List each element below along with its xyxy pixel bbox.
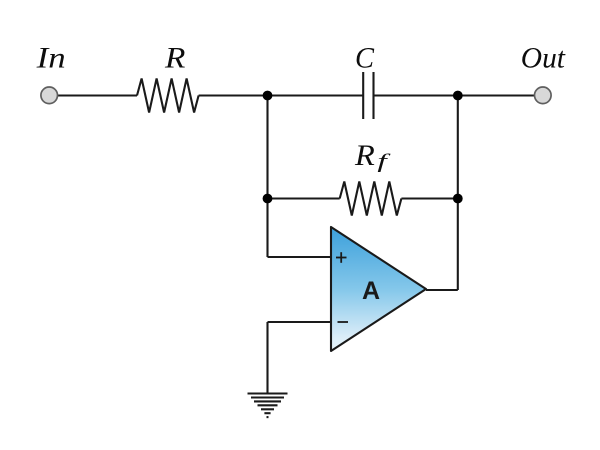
- wire left vertical node A down to op-amp + input: [266, 96, 268, 258]
- resistor R: [137, 79, 199, 113]
- wire node A to capacitor C: [268, 94, 364, 96]
- wire node B to Out terminal: [458, 94, 535, 96]
- wire node C to resistor Rf: [268, 197, 340, 199]
- node D (junction Rf right): [453, 194, 463, 204]
- wire right vertical node B to op-amp output: [457, 96, 459, 291]
- node C (junction Rf left): [263, 194, 273, 204]
- op-amp + pin label: [336, 252, 347, 263]
- capacitor C: [363, 72, 373, 119]
- resistor Rf: [340, 182, 402, 216]
- op-amp U1: [331, 227, 426, 351]
- Out terminal: [535, 87, 552, 104]
- wire op-amp output horizontal: [426, 289, 458, 291]
- wire resistor Rf to node D: [401, 197, 457, 199]
- wire resistor R to node A: [199, 94, 268, 96]
- svg-text:Rf: Rf: [354, 139, 391, 173]
- svg-text:A: A: [362, 277, 380, 305]
- wire In terminal to resistor R: [57, 94, 137, 96]
- svg-text:In: In: [36, 42, 66, 75]
- wire capacitor C to node B: [374, 94, 458, 96]
- svg-text:R: R: [164, 42, 186, 75]
- In terminal: [41, 87, 58, 104]
- wire op-amp - input horizontal: [268, 321, 333, 323]
- ground: [248, 394, 288, 418]
- op-amp - pin label: [338, 321, 349, 323]
- node A (junction R / C / op-amp input): [263, 91, 273, 101]
- wire - input down to ground: [266, 322, 268, 393]
- wire op-amp + input horizontal: [268, 256, 333, 258]
- svg-text:Out: Out: [521, 42, 566, 75]
- node B (junction C / Out / output): [453, 91, 463, 101]
- svg-text:C: C: [355, 42, 375, 75]
